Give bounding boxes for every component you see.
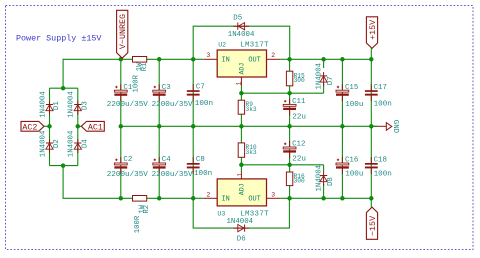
svg-text:R1: R1 [141, 62, 149, 71]
wire -15V stub [370, 198, 372, 207]
wire R9 branch [240, 93, 242, 126]
svg-text:100R: 100R [134, 215, 142, 233]
diode D5 [228, 15, 255, 39]
junction C8 / D6 riser [191, 196, 196, 201]
junction C12 / R16 [287, 163, 292, 168]
capacitor C2 [107, 156, 148, 179]
junction C15 ground [340, 124, 345, 129]
resistor R15 [286, 71, 305, 86]
svg-text:3: 3 [271, 192, 275, 199]
U3 pin name ADJ [238, 183, 245, 195]
svg-text:1N4004: 1N4004 [227, 218, 254, 226]
svg-text:100R: 100R [132, 74, 140, 92]
U3 pin 1 (ADJ) [236, 171, 243, 179]
svg-text:D1: D1 [53, 101, 61, 110]
wire GND stub [371, 125, 377, 127]
svg-text:1N4004: 1N4004 [39, 130, 47, 157]
U2 pin 1 (ADJ) [236, 77, 243, 86]
junction C1 ground [119, 124, 124, 129]
U2 reference label [218, 41, 226, 48]
svg-text:100u: 100u [345, 171, 363, 179]
svg-text:C2: C2 [123, 156, 132, 164]
junction C15 top [340, 57, 345, 62]
junction C18 / -15V [369, 196, 374, 201]
wire ground rail [121, 125, 377, 127]
net label AC1 [81, 121, 104, 132]
svg-text:C12: C12 [292, 141, 305, 149]
wire bridge top bar [50, 87, 78, 89]
capacitor C15 [336, 84, 363, 109]
U2 pin name IN [222, 56, 230, 64]
U3 pin name IN [222, 196, 230, 204]
junction C7 / D5 riser [191, 57, 196, 62]
wire D8 branch [323, 165, 325, 199]
U3 pin name OUT [248, 196, 260, 204]
wire AC2 stub [44, 125, 50, 127]
wire U3 ADJ rail [241, 165, 323, 172]
svg-text:GND: GND [391, 120, 399, 134]
svg-text:V−UNREG: V−UNREG [118, 14, 128, 49]
svg-text:D2: D2 [53, 139, 61, 148]
junction U3 OUT / D6 [287, 196, 292, 201]
junction bridge top [61, 86, 66, 91]
junction R15 / C11 [287, 91, 292, 96]
svg-text:U2: U2 [218, 41, 226, 48]
svg-text:D6: D6 [237, 235, 246, 243]
svg-text:100u: 100u [345, 101, 363, 109]
junction C7 ground [191, 124, 196, 129]
svg-text:R2: R2 [143, 205, 151, 214]
capacitor C8 [187, 156, 212, 178]
U3 pin 2 (IN) [204, 192, 217, 199]
svg-text:OUT: OUT [248, 56, 260, 64]
svg-text:2200u/35V: 2200u/35V [107, 101, 148, 109]
svg-text:100n: 100n [374, 171, 392, 179]
svg-text:100n: 100n [194, 170, 212, 178]
capacitor C11 [283, 98, 306, 121]
net label AC2 [21, 121, 44, 132]
svg-text:D4: D4 [81, 139, 89, 148]
resistor R2 [133, 196, 152, 234]
svg-text:ADJ: ADJ [238, 183, 245, 195]
diode D3 [68, 91, 90, 118]
svg-text:100n: 100n [195, 100, 213, 108]
svg-text:IN: IN [222, 196, 230, 204]
svg-text:D5: D5 [233, 15, 242, 23]
junction bridge bottom [61, 163, 66, 168]
resistor R9 [238, 100, 257, 114]
U2 pin 2 (OUT) [267, 52, 281, 59]
svg-text:C16: C16 [345, 156, 358, 164]
wire C7 column [192, 59, 194, 198]
net label -15V [366, 207, 378, 239]
schematic title text [16, 34, 101, 44]
capacitor C7 [187, 84, 213, 108]
wire C3 column [158, 59, 160, 198]
svg-text:ADJ: ADJ [238, 63, 245, 75]
svg-text:300: 300 [294, 178, 305, 185]
svg-text:C4: C4 [162, 156, 171, 164]
capacitor C12 [283, 141, 306, 164]
svg-text:3k3: 3k3 [246, 106, 257, 113]
svg-text:2: 2 [271, 52, 275, 59]
capacitor C1 [107, 84, 148, 109]
capacitor C18 [365, 156, 392, 178]
diode D1 [39, 91, 61, 118]
svg-text:D7: D7 [327, 76, 335, 85]
junction U2 ADJ [239, 91, 244, 96]
wire +15V output rail [280, 58, 371, 60]
svg-text:22u: 22u [292, 113, 306, 121]
diode D6 [227, 218, 254, 244]
wire -15V output rail [280, 197, 371, 199]
wire bridge right column [77, 88, 79, 165]
net label +15V [366, 17, 378, 49]
wire C1 column [120, 59, 122, 198]
svg-text:LM317T: LM317T [240, 41, 269, 49]
svg-text:2200u/35V: 2200u/35V [152, 171, 193, 179]
wire C12 R16 branch [289, 126, 291, 198]
wire +15V stub [370, 48, 372, 59]
svg-text:2200u/35V: 2200u/35V [107, 171, 148, 179]
capacitor C4 [152, 156, 193, 179]
svg-text:3: 3 [206, 52, 210, 59]
svg-text:2200u/35V: 2200u/35V [152, 101, 193, 109]
junction U3 ADJ [239, 163, 244, 168]
svg-text:C1: C1 [123, 84, 132, 92]
svg-text:1: 1 [236, 82, 243, 86]
junction R9 ground [239, 124, 244, 129]
U3 value LM337T [240, 210, 269, 218]
svg-text:1: 1 [236, 173, 243, 177]
svg-text:AC1: AC1 [88, 122, 103, 132]
diode D7 [315, 62, 335, 89]
svg-text:300: 300 [294, 77, 305, 84]
svg-text:22u: 22u [292, 155, 306, 163]
svg-text:1N4004: 1N4004 [315, 62, 323, 89]
svg-text:100n: 100n [374, 100, 392, 108]
svg-text:D8: D8 [327, 177, 335, 186]
svg-text:Power Supply ±15V: Power Supply ±15V [16, 34, 101, 44]
svg-text:−15V: −15V [368, 216, 378, 236]
svg-text:C7: C7 [196, 84, 205, 92]
junction D8 bottom [321, 196, 326, 201]
wire U2 ADJ rail [241, 84, 323, 93]
junction C4 bottom [157, 196, 162, 201]
svg-text:1N4004: 1N4004 [39, 91, 47, 118]
wire R10 branch [240, 126, 242, 165]
wire top rail (unregulated input to U2 IN) [63, 59, 204, 88]
hierarchical label GND [377, 120, 399, 134]
svg-text:U3: U3 [217, 210, 225, 217]
resistor R16 [286, 172, 305, 186]
junction C3 top [157, 57, 162, 62]
svg-text:D3: D3 [81, 101, 89, 110]
U2 pin name OUT [248, 56, 260, 64]
op-amp U2 regulator LM317T body [217, 50, 266, 77]
diode D2 [39, 130, 61, 157]
wire D6 bypass branch [193, 198, 289, 228]
svg-text:2: 2 [206, 192, 210, 199]
junction U2 OUT / D5 [287, 57, 292, 62]
wire bridge bottom bar [50, 165, 78, 167]
capacitor C3 [152, 84, 193, 109]
junction V-UNREG / C1 top [119, 57, 124, 62]
junction C16 bottom [340, 196, 345, 201]
svg-text:AC2: AC2 [22, 122, 37, 132]
junction C11 ground [287, 124, 292, 129]
wire AC1 stub [78, 125, 82, 127]
wire C17 column [370, 59, 372, 198]
diode D4 [68, 130, 90, 157]
junction C2 bottom [119, 196, 124, 201]
svg-text:IN: IN [222, 56, 230, 64]
svg-text:1N4004: 1N4004 [228, 31, 255, 39]
resistor R1 [132, 57, 149, 93]
svg-text:1N4004: 1N4004 [68, 91, 76, 118]
capacitor C17 [365, 84, 392, 108]
svg-text:C18: C18 [374, 156, 387, 164]
svg-text:C11: C11 [292, 98, 306, 106]
svg-text:C3: C3 [162, 84, 171, 92]
wire D5 bypass branch [193, 26, 290, 59]
U2 pin 3 (IN) [204, 52, 217, 59]
svg-text:C8: C8 [196, 156, 205, 164]
junction C17 / +15V [369, 57, 374, 62]
wire bridge left column [49, 88, 51, 165]
U2 value LM317T [240, 41, 269, 49]
wire bottom negative rail [63, 166, 204, 199]
svg-text:1N4004: 1N4004 [68, 130, 76, 157]
diode D8 [315, 164, 335, 191]
junction AC2 [47, 124, 52, 129]
U3 pin 3 (OUT) [267, 192, 281, 199]
svg-text:C15: C15 [345, 84, 358, 92]
wire C15 column [341, 59, 343, 198]
svg-text:OUT: OUT [248, 196, 260, 204]
capacitor C16 [336, 156, 363, 178]
svg-text:+15V: +15V [368, 20, 378, 40]
wire R15 C11 branch [289, 59, 291, 126]
net label V-UNREG [117, 10, 129, 58]
junction AC1 [76, 124, 81, 129]
junction D7 top [321, 57, 326, 62]
junction C3 ground [157, 124, 162, 129]
U3 reference label [217, 210, 225, 217]
resistor R10 [238, 143, 257, 157]
junction C17 ground / GND label [369, 124, 374, 129]
svg-text:1N4004: 1N4004 [315, 164, 323, 191]
svg-text:3k3: 3k3 [246, 149, 257, 156]
op-amp U3 regulator LM337T body [217, 179, 266, 206]
wire D7 branch [323, 59, 325, 68]
svg-text:C17: C17 [374, 84, 387, 92]
U2 pin name ADJ [238, 63, 245, 75]
